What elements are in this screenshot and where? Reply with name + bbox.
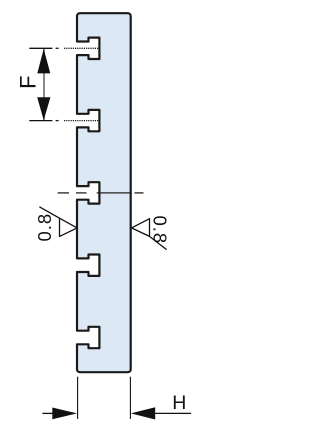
svg-text:H: H (172, 392, 186, 414)
svg-text:F: F (15, 75, 40, 88)
svg-text:0.8: 0.8 (34, 213, 55, 242)
svg-text:0.8: 0.8 (150, 215, 171, 244)
